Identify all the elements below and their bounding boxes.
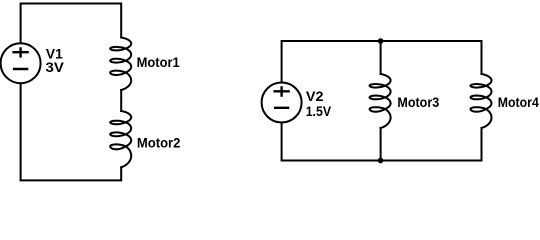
wire right-circuit top (282, 41, 482, 83)
wire left-circuit bottom (21, 83, 122, 180)
wire between Motor1 and Motor2 (120, 90, 122, 111)
wire middle branch bottom (380, 128, 382, 161)
svg-text:Motor2: Motor2 (137, 135, 181, 151)
wire middle branch top (380, 41, 382, 74)
wire right-circuit bottom (282, 123, 482, 161)
svg-text:Motor1: Motor1 (137, 54, 180, 70)
svg-text:V2: V2 (306, 88, 324, 104)
wire left-circuit top (21, 4, 122, 44)
junction dot bottom (378, 158, 384, 164)
inductor Motor2 (110, 111, 131, 167)
junction dot top (378, 38, 384, 44)
svg-text:Motor4: Motor4 (498, 94, 539, 110)
voltage source V2 (262, 83, 302, 123)
svg-text:Motor3: Motor3 (397, 94, 439, 110)
inductor Motor3 (370, 74, 391, 128)
svg-text:3V: 3V (46, 59, 65, 75)
inductor Motor4 (471, 74, 492, 128)
svg-text:1.5V: 1.5V (306, 103, 332, 119)
voltage source V1 (1, 43, 41, 83)
inductor Motor1 (110, 38, 131, 91)
